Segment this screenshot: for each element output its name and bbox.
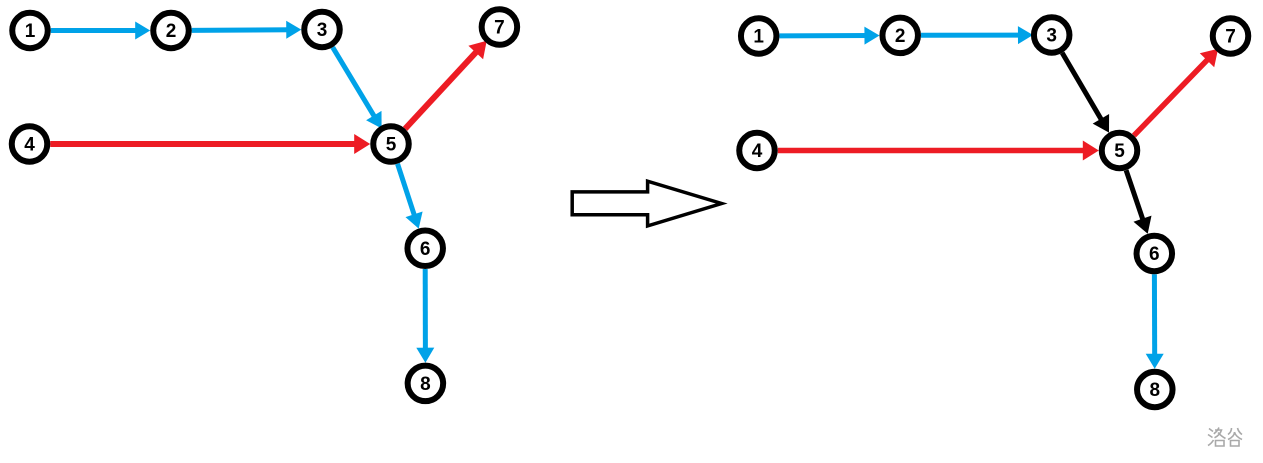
node 4 left bbox=[12, 126, 48, 162]
node 6 right bbox=[1137, 236, 1173, 272]
svg-text:1: 1 bbox=[25, 21, 36, 42]
edge 6-8 right (blue) bbox=[1146, 274, 1164, 369]
edge 2-3 left (blue) bbox=[192, 21, 302, 39]
edge 1-2 left (blue) bbox=[51, 22, 150, 40]
svg-text:6: 6 bbox=[420, 239, 431, 260]
node 7 left bbox=[482, 9, 518, 45]
edge 2-3 right (blue) bbox=[921, 26, 1033, 44]
edge 3-5 left (blue) bbox=[333, 47, 382, 128]
edge 1-2 right (blue) bbox=[779, 27, 879, 45]
node 7 right bbox=[1213, 18, 1249, 54]
svg-text:7: 7 bbox=[1225, 27, 1236, 48]
svg-text:3: 3 bbox=[1046, 26, 1057, 47]
node 6 left bbox=[407, 231, 443, 266]
svg-text:6: 6 bbox=[1149, 244, 1160, 265]
svg-text:4: 4 bbox=[24, 135, 35, 156]
edge 4-5 right (red) bbox=[778, 141, 1099, 161]
watermark "洛谷" (Luogu) bbox=[1208, 428, 1242, 447]
svg-text:2: 2 bbox=[166, 21, 177, 42]
node 2 right bbox=[882, 18, 918, 54]
node 4 right bbox=[739, 133, 775, 169]
edge 6-8 left (blue) bbox=[416, 269, 434, 363]
node 5 left bbox=[373, 126, 409, 162]
svg-text:5: 5 bbox=[1114, 141, 1125, 162]
node 5 right bbox=[1102, 133, 1138, 169]
edge 5-7 right (red) bbox=[1134, 49, 1218, 136]
node 3 right bbox=[1034, 17, 1070, 53]
edge 5-7 left (red) bbox=[405, 41, 487, 129]
svg-text:2: 2 bbox=[895, 26, 906, 47]
node 3 left bbox=[304, 12, 340, 48]
svg-text:8: 8 bbox=[420, 374, 431, 395]
svg-text:8: 8 bbox=[1150, 380, 1161, 401]
svg-text:7: 7 bbox=[494, 18, 505, 39]
edge 3-5 right (black) bbox=[1062, 53, 1109, 133]
node 8 right bbox=[1137, 372, 1173, 408]
node 1 left bbox=[12, 13, 48, 49]
big transform arrow bbox=[572, 181, 721, 226]
svg-text:1: 1 bbox=[753, 27, 764, 48]
svg-text:3: 3 bbox=[317, 20, 328, 41]
edge 5-6 right (black) bbox=[1126, 170, 1151, 234]
svg-text:4: 4 bbox=[752, 141, 763, 162]
edge 4-5 left (red) bbox=[50, 134, 370, 154]
node 1 right bbox=[741, 18, 777, 54]
node 2 left bbox=[153, 13, 189, 49]
edge 5-6 left (blue) bbox=[398, 164, 423, 229]
node 8 left bbox=[408, 366, 444, 402]
svg-text:5: 5 bbox=[386, 135, 397, 156]
